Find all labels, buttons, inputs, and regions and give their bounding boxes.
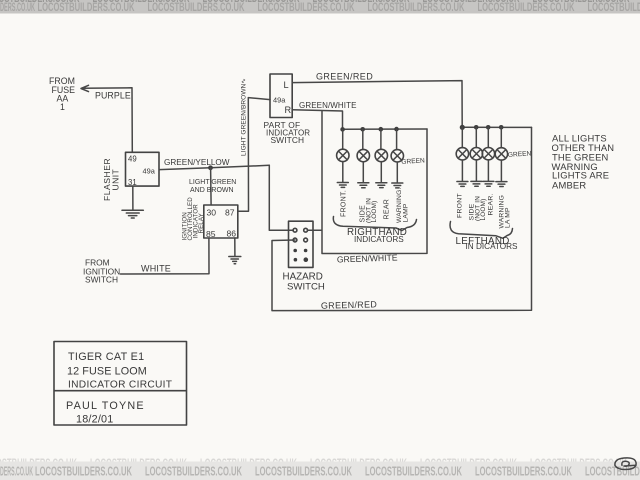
ground RH side	[358, 183, 369, 188]
junction dots on righthand bus	[340, 127, 399, 132]
lamp RH warning	[391, 129, 403, 183]
svg-text:REAR: REAR	[383, 199, 390, 220]
label LIGHT GREEN AND BROWN	[189, 179, 236, 194]
label SIDE NOT IN LOOM (LH)	[468, 196, 487, 221]
righthand bus wire	[343, 128, 428, 130]
svg-text:49: 49	[128, 155, 137, 164]
svg-text:SWITCH: SWITCH	[287, 282, 325, 293]
svg-text:GREEN/RED: GREEN/RED	[321, 299, 378, 310]
ground LH side	[471, 181, 482, 186]
label PURPLE	[95, 91, 131, 101]
svg-text:49a: 49a	[273, 96, 286, 105]
ground LH front	[457, 182, 468, 187]
label GREEN (LH warning lamp)	[508, 150, 532, 159]
label HAZARD SWITCH	[283, 271, 325, 292]
wire to relay pin 30	[210, 168, 213, 205]
label LIGHT GREEN/BROWN (rotated along wire)	[241, 78, 248, 156]
svg-text:R: R	[285, 105, 292, 115]
svg-text:SWITCH: SWITCH	[271, 135, 305, 145]
ground under relay 86	[229, 238, 241, 264]
label GREEN/YELLOW	[164, 158, 230, 167]
ground RH rear	[376, 183, 387, 188]
wire green/yellow drop to hazard switch	[269, 165, 293, 230]
wire white: ignition switch to relay 85	[120, 238, 209, 274]
wire green/red bottom: hazard to lefthand bus right end	[272, 127, 532, 310]
top watermark banner	[0, 0, 640, 14]
svg-text:30: 30	[207, 207, 217, 217]
svg-text:GREEN/YELLOW: GREEN/YELLOW	[164, 158, 230, 167]
lamp LH rear	[482, 127, 494, 181]
svg-text:31: 31	[128, 178, 137, 187]
ground RH front	[337, 183, 348, 188]
svg-text:INDICATORS: INDICATORS	[354, 235, 404, 244]
svg-text:1: 1	[60, 102, 65, 112]
lamp LH side	[470, 127, 482, 181]
svg-text:LOCOSTBUILDERS.CO.UK: LOCOSTBUILDERS.CO.UK	[365, 464, 462, 478]
lamp LH front	[456, 127, 468, 181]
title block	[54, 342, 187, 426]
svg-text:LOCOSTBUILDERS.CO.UK: LOCOSTBUILDERS.CO.UK	[533, 0, 630, 5]
label RIGHTHAND INDICATORS	[347, 227, 407, 244]
svg-text:LIGHT GREEN/BROWN∿: LIGHT GREEN/BROWN∿	[241, 78, 248, 156]
svg-text:LOOM): LOOM)	[371, 201, 378, 223]
svg-text:AMBER: AMBER	[552, 180, 586, 191]
svg-text:85: 85	[206, 229, 216, 239]
svg-text:86: 86	[227, 228, 237, 238]
label WARNING LAMP (LH)	[498, 195, 511, 228]
svg-text:FRONT: FRONT	[456, 193, 463, 218]
svg-text:87: 87	[225, 207, 235, 217]
svg-text:LA MP: LA MP	[504, 207, 511, 228]
svg-text:AND BROWN: AND BROWN	[190, 187, 234, 194]
indicator switch box (part of indicator switch)	[264, 74, 311, 145]
wire purple: fuse feed to flasher 49	[82, 88, 133, 153]
svg-text:GREEN/RED: GREEN/RED	[316, 72, 373, 82]
label SIDE NOT IN LOOM (RH)	[359, 198, 378, 223]
lamp RH front	[337, 129, 349, 182]
svg-text:LAMP: LAMP	[402, 203, 409, 222]
hazard switch box	[289, 221, 314, 267]
label WARNING LAMP (RH)	[396, 187, 410, 223]
svg-text:SWITCH: SWITCH	[85, 275, 118, 285]
label GREEN/WHITE bottom	[337, 252, 398, 264]
svg-text:LOCOSTBUILDERS.CO.UK: LOCOSTBUILDERS.CO.UK	[255, 464, 352, 478]
svg-text:REAR.: REAR.	[487, 193, 494, 215]
wire green/white bottom: hazard to righthand bus right end	[308, 111, 428, 254]
brace lefthand group	[450, 222, 512, 239]
flasher unit box	[102, 152, 159, 201]
svg-text:IN DICATORS: IN DICATORS	[466, 242, 519, 251]
bottom watermark banner	[0, 456, 640, 480]
junction dots on lefthand bus	[460, 125, 504, 130]
ground RH warning	[392, 183, 403, 188]
label WHITE	[141, 263, 171, 273]
relay box: ignition controlled indicator relay	[182, 197, 238, 241]
label FRONT (LH)	[456, 193, 463, 218]
svg-text:LOCOSTBUILDERS.CO.UK: LOCOSTBUILDERS.CO.UK	[423, 0, 520, 5]
label GREEN/RED bottom	[321, 299, 378, 310]
svg-text:LOCOSTBUILDERS.CO.UK: LOCOSTBUILDERS.CO.UK	[585, 464, 640, 478]
svg-text:49a: 49a	[143, 166, 156, 175]
ground under flasher 31	[122, 186, 143, 218]
svg-text:PAUL TOYNE: PAUL TOYNE	[66, 400, 145, 412]
note: all lights amber	[552, 133, 615, 191]
lamp LH warning	[495, 127, 507, 181]
svg-text:LOCOSTBUILDERS.CO.UK: LOCOSTBUILDERS.CO.UK	[93, 0, 190, 5]
svg-text:INDICATOR CIRCUIT: INDICATOR CIRCUIT	[68, 379, 172, 390]
svg-text:UNIT: UNIT	[111, 169, 121, 191]
label REAR (RH)	[383, 199, 390, 220]
svg-text:LOCOSTBUILDERS.CO.UK: LOCOSTBUILDERS.CO.UK	[145, 464, 242, 478]
svg-text:GREEN/WHITE: GREEN/WHITE	[337, 252, 398, 264]
svg-text:FRONT.: FRONT.	[340, 190, 347, 217]
svg-text:LOCOSTBUILDERS.CO.UK: LOCOSTBUILDERS.CO.UK	[475, 464, 572, 478]
lamp RH side	[357, 129, 369, 182]
svg-text:12 FUSE LOOM: 12 FUSE LOOM	[67, 365, 147, 377]
ground LH warning	[496, 182, 507, 187]
label REAR (LH)	[487, 193, 494, 215]
wire green/white top: R to righthand bus	[292, 110, 342, 129]
label GREEN/RED top	[316, 72, 373, 82]
label GREEN/WHITE top	[299, 101, 357, 110]
svg-text:LIGHT GREEN: LIGHT GREEN	[189, 179, 236, 186]
svg-text:LOCOSTBUILDERS.CO.UK: LOCOSTBUILDERS.CO.UK	[0, 0, 80, 5]
svg-text:LOOM): LOOM)	[480, 199, 487, 221]
lamp RH rear	[375, 129, 387, 182]
label FRONT (RH)	[340, 190, 347, 217]
wire relay 87 to indicator switch 49a	[238, 98, 270, 212]
svg-text:LOCOSTBUILDERS.CO.UK: LOCOSTBUILDERS.CO.UK	[35, 464, 132, 478]
svg-text:WHITE: WHITE	[141, 263, 171, 273]
label LEFTHAND INDICATORS	[456, 236, 519, 251]
junction dot on green/yellow	[208, 165, 213, 170]
svg-text:LOCOSTBUILDERS.CO.UK: LOCOSTBUILDERS.CO.UK	[203, 0, 300, 5]
svg-text:PURPLE: PURPLE	[95, 91, 131, 101]
svg-text:18/2/01: 18/2/01	[76, 414, 113, 426]
lefthand bus wire	[462, 126, 531, 128]
doodle signature bottom right	[615, 458, 636, 470]
ground LH rear	[483, 181, 494, 186]
wire green/red top: L to lefthand bus	[292, 81, 462, 128]
wire green/yellow: flasher 49a to hazard drop	[160, 165, 270, 169]
svg-text:TIGER CAT E1: TIGER CAT E1	[68, 351, 144, 363]
node: from ignition switch	[83, 258, 120, 285]
label GREEN (RH warning lamp)	[401, 157, 425, 166]
svg-text:DERS.CO.UK: DERS.CO.UK	[0, 464, 33, 478]
node: feed from fuse AA (arrow)	[49, 76, 89, 112]
svg-text:LOCOSTBUILDERS.CO.UK: LOCOSTBUILDERS.CO.UK	[313, 0, 410, 5]
svg-text:GREEN/WHITE: GREEN/WHITE	[299, 101, 357, 110]
brace righthand group	[333, 217, 416, 231]
svg-text:L: L	[284, 80, 289, 90]
svg-text:RELAY: RELAY	[198, 213, 205, 233]
